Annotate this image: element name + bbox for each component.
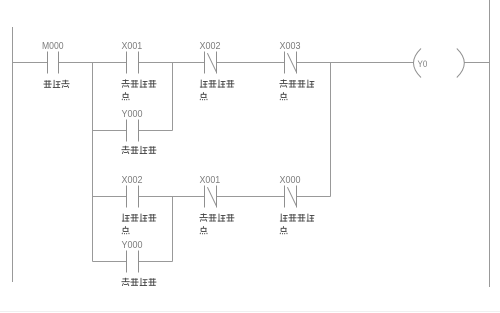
bottom window border bbox=[0, 311, 500, 313]
wire rung 1 bbox=[13, 62, 490, 64]
label 气缸伸出 branch1 bbox=[122, 146, 157, 154]
contact X000 (NC) rung2 bbox=[285, 186, 297, 208]
coil Y0 bbox=[414, 49, 465, 78]
contact X001 (NO) bbox=[127, 52, 139, 74]
label 后退伸出点 rung1 bbox=[200, 80, 235, 101]
contact X003 (NC) bbox=[285, 52, 297, 74]
svg-text:Y0: Y0 bbox=[418, 59, 428, 69]
label 气缸伸出 branch2 bbox=[122, 278, 157, 286]
svg-text:X001: X001 bbox=[200, 175, 221, 186]
wire join D vertical bbox=[172, 197, 174, 262]
wire branch Y000-2 bbox=[93, 261, 173, 263]
svg-text:X001: X001 bbox=[122, 41, 143, 52]
contact X002 (NO) rung2 bbox=[127, 186, 139, 208]
svg-text:X000: X000 bbox=[280, 175, 301, 186]
wire join C vertical bbox=[330, 63, 332, 197]
svg-text:Y000: Y000 bbox=[122, 109, 143, 120]
wire branch Y000-1 bbox=[93, 130, 173, 132]
wire branch node A vertical bbox=[92, 63, 94, 262]
left power rail bbox=[12, 27, 14, 282]
svg-text:X003: X003 bbox=[280, 41, 301, 52]
svg-text:X002: X002 bbox=[122, 175, 143, 186]
contact M000 (NO) bbox=[48, 52, 59, 74]
contact X001 (NC) rung2 bbox=[205, 186, 217, 208]
svg-text:M000: M000 bbox=[42, 41, 64, 52]
svg-text:Y000: Y000 bbox=[122, 240, 143, 251]
contact Y000 (NO) branch1 bbox=[127, 120, 139, 142]
svg-text:X002: X002 bbox=[200, 41, 221, 52]
label 前进限位点 bbox=[280, 79, 315, 100]
label 后退限位点 rung2 bbox=[280, 214, 315, 235]
label 前进伸出点 rung2 bbox=[200, 213, 235, 234]
right power rail bbox=[489, 0, 491, 287]
wire rung 2 bbox=[93, 196, 331, 198]
contact Y000 (NO) branch2 bbox=[127, 251, 139, 273]
contact X002 (NC) rung1 bbox=[205, 52, 217, 74]
wire join B vertical bbox=[172, 63, 174, 131]
label 运行中 bbox=[44, 80, 70, 88]
label 后退伸出点 rung2 bbox=[122, 214, 156, 235]
label 前进伸出点 bbox=[122, 79, 157, 100]
